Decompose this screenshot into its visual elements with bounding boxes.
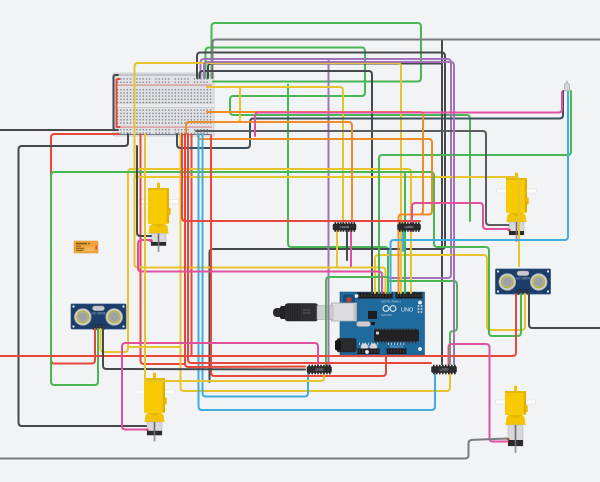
wire gray breadboard top exits right — [213, 40, 600, 79]
wire yellow breadboard to chip U3 — [145, 134, 324, 381]
wire red breadboard to left sensor VCC — [51, 134, 119, 364]
wire black top-left motor terminal — [137, 146, 151, 236]
wire cyan breadboard to chip U4 — [199, 134, 436, 410]
usb plug P1 — [273, 304, 333, 322]
wire pink top-right motor to chip U2 — [412, 203, 509, 231]
wire purple breadboard to chip U4 — [204, 62, 454, 364]
wire orange breadboard to chip U1 — [186, 122, 352, 222]
wire green mid row to arduino — [404, 172, 406, 293]
wire slate breadboard to terminal pin — [177, 91, 563, 148]
svg-text:POWER: POWER — [364, 346, 373, 349]
arduino usb port — [332, 303, 357, 321]
svg-text:DIGITAL (PWM~): DIGITAL (PWM~) — [381, 300, 401, 304]
wire orange breadboard to arduino D5 — [198, 134, 432, 293]
arduino uno U5 — [332, 292, 425, 355]
wire green branch to chip U4 — [389, 281, 457, 364]
wire cyan breadboard to chip U3 — [203, 134, 309, 397]
wire black right sensor GND exits right — [529, 294, 600, 328]
motor M3 bottom-left — [135, 373, 175, 442]
wire pink chip U4 to bottom-right motor — [449, 344, 508, 442]
orange note label — [74, 241, 98, 253]
wire red power rail to chips U1 U2 — [182, 134, 420, 221]
wire green breadboard jog row — [206, 48, 471, 222]
wire black breadboard-left — [0, 129, 116, 131]
wire cyan chip U2 stub — [402, 231, 404, 251]
arduino analog header — [387, 349, 407, 355]
wire black breadboard left wrap — [114, 75, 119, 130]
terminal pin — [565, 81, 570, 92]
wire green left sensor ECHO to right sensor — [51, 172, 521, 385]
wire gray long bottom to bottom-right motor — [0, 439, 508, 459]
svg-text:UNO: UNO — [401, 308, 414, 314]
wire yellow breadboard to chip U4 long — [181, 134, 451, 391]
wire black vertical to chip U4 — [441, 41, 443, 364]
wire orange breadboard row up — [207, 112, 423, 215]
ultrasonic sensor right HC-SR04 — [496, 269, 551, 295]
wire black breadboard to arduino D13 — [200, 71, 373, 293]
wire black breadboard long loop — [197, 53, 445, 383]
wire red breadboard left tall — [141, 134, 185, 364]
motor M1 top-left — [139, 183, 179, 253]
svg-text:L293D: L293D — [340, 225, 350, 229]
wire red breadboard to chip U4 — [188, 134, 431, 363]
wire yellow breadboard to arduino D9 — [135, 177, 386, 293]
wire yellow arduino to right sensor TRIG — [375, 255, 525, 330]
svg-text:ARDUINO: ARDUINO — [381, 314, 392, 317]
wire black left sensor GND to chip U3 — [103, 329, 305, 370]
wire red arduino 5V to breadboard — [211, 136, 386, 376]
wire pink chip U1 stub — [350, 231, 352, 266]
svg-text:L293D: L293D — [405, 225, 415, 229]
wire red breadboard to chip U3 — [185, 134, 305, 367]
chip U4 L293D — [432, 365, 457, 375]
wire pink chip U3 to bottom-left motor — [122, 343, 318, 430]
wire green breadboard to arduino top loop — [212, 23, 422, 82]
wire yellow breadboard row to chip U1 — [207, 87, 343, 224]
wire yellow arduino to mid row long — [135, 63, 520, 293]
wire green terminal pin to arduino D10 — [379, 91, 571, 293]
wire green branch to arduino D8 — [288, 85, 388, 294]
motor M2 top-right — [497, 173, 537, 243]
breadboard — [113, 73, 214, 136]
wire cyan arduino to terminal pin — [391, 92, 569, 293]
wire yellow left sensor TRIG to arduino — [101, 169, 412, 352]
wire yellow chip U1 stub — [336, 231, 338, 266]
chip U3 L293D — [307, 365, 332, 375]
wire purple vertical to chip U3 — [328, 60, 330, 366]
svg-text:L293D: L293D — [315, 368, 325, 372]
wire black chip U1 stub — [346, 231, 348, 260]
chip U2 L293D — [398, 222, 421, 232]
wire purple breadboard top long — [201, 59, 452, 278]
wire red breadboard left wrap — [117, 79, 120, 127]
arduino logo — [383, 306, 389, 312]
arduino digital header — [357, 293, 393, 299]
motor M4 bottom-right — [496, 386, 536, 454]
arduino reset button — [344, 295, 355, 305]
svg-text:HC-SR04: HC-SR04 — [516, 277, 530, 281]
wire black breadboard to top-right motor — [196, 131, 509, 225]
wire red breadboard extra — [191, 134, 193, 356]
svg-text:ANALOG IN: ANALOG IN — [390, 346, 403, 349]
chip U1 L293D — [333, 222, 356, 232]
arduino power header — [358, 349, 380, 355]
wire black breadboard to bottom-left motor — [19, 134, 147, 426]
arduino power jack — [337, 339, 356, 353]
wire pink top-left motor to arduino D11 — [138, 240, 382, 293]
svg-text:HC-SR04: HC-SR04 — [92, 312, 106, 316]
wire pink breadboard to terminal pin — [255, 92, 562, 136]
ultrasonic sensor left HC-SR04 — [71, 304, 126, 330]
svg-text:L293D: L293D — [440, 368, 450, 372]
wire green chip U3 to arduino row — [326, 277, 387, 366]
wire black breadboard row 63 — [208, 64, 441, 79]
wire red long to right sensor VCC — [0, 294, 516, 356]
wire yellow breadboard hook — [214, 88, 240, 123]
wire yellow link row — [128, 346, 181, 348]
arduino ATmega328 — [374, 330, 419, 342]
